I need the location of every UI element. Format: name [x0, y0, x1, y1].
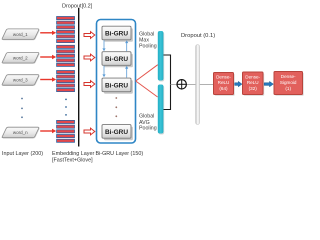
concat sum node [177, 80, 186, 89]
dense box 3 [274, 72, 304, 96]
red open arrow row3 [84, 81, 95, 88]
label Global Max Pooling [139, 32, 157, 50]
svg-text:(32): (32) [249, 86, 258, 91]
dense box 1 [214, 73, 235, 96]
svg-text:word_3: word_3 [13, 78, 28, 83]
red line to max pooling bar [136, 65, 158, 81]
word box word_2 [2, 53, 39, 64]
Bi-GRU box 3 [102, 78, 133, 94]
red open arrow row4 [84, 128, 95, 135]
svg-text:Pooling: Pooling [139, 44, 157, 50]
svg-text:Dense-: Dense- [281, 74, 296, 79]
svg-text:Global: Global [139, 114, 154, 120]
max pooling cyan bar [158, 31, 164, 82]
svg-text:Dropout[0.2]: Dropout[0.2] [62, 4, 93, 10]
svg-text:Pooling: Pooling [139, 126, 157, 132]
svg-text:Bi-GRU: Bi-GRU [105, 56, 128, 63]
svg-text:Dense-: Dense- [245, 74, 260, 79]
svg-text:Dropout (0.1): Dropout (0.1) [181, 33, 215, 39]
svg-text:Dense-: Dense- [216, 74, 231, 79]
blue arrows between box2 and box3 [102, 66, 128, 78]
vertical dots Bi-GRU column [115, 97, 117, 117]
red open arrow row2 [84, 54, 95, 61]
dense box 2 [243, 72, 265, 96]
svg-text:Bi-GRU: Bi-GRU [105, 31, 128, 38]
blue block arrow 1 [235, 81, 242, 86]
blue arrows between box1 and box2 [102, 40, 128, 51]
svg-text:Embedding Layer: Embedding Layer [52, 151, 94, 157]
Bi-GRU box n [102, 125, 133, 141]
svg-text:Bi-GRU Layer (150): Bi-GRU Layer (150) [96, 151, 144, 157]
embedding stack n [57, 120, 75, 142]
Bi-GRU box 2 [102, 52, 133, 68]
red arrow word_3 to embedding [40, 77, 56, 81]
Bi-GRU container [97, 20, 136, 144]
blue block arrow 2 [264, 81, 273, 86]
red arrow word_2 to embedding [40, 55, 56, 59]
embedding stack 2 [57, 45, 75, 66]
red open arrow row1 [84, 32, 95, 39]
red arrow word_1 to embedding [40, 31, 56, 35]
svg-text:(1): (1) [285, 86, 291, 91]
word box word_n [2, 127, 39, 138]
svg-text:Bi-GRU: Bi-GRU [105, 129, 128, 136]
label Global AVG Pooling [139, 114, 157, 132]
svg-text:(64): (64) [219, 86, 228, 91]
svg-text:Sigmoid: Sigmoid [280, 80, 297, 85]
svg-text:Bi-GRU: Bi-GRU [105, 83, 128, 90]
vertical dots embedding column [65, 99, 67, 116]
svg-text:word_1: word_1 [13, 32, 28, 37]
Bi-GRU box 1 [102, 26, 133, 42]
svg-text:word_2: word_2 [13, 56, 28, 61]
red line to avg pooling bar [136, 81, 158, 97]
svg-text:Input Layer (200): Input Layer (200) [2, 151, 43, 157]
dropout 0.1 bar [196, 45, 200, 125]
dropout 0.2 vertical line [78, 8, 80, 147]
svg-text:ReLU: ReLU [218, 80, 230, 85]
bracket joining pooling outputs [164, 55, 171, 110]
svg-text:word_n: word_n [13, 130, 28, 135]
svg-text:ReLU: ReLU [247, 80, 259, 85]
wire bracket to dense layer [171, 83, 214, 85]
embedding stack 3 [57, 71, 75, 92]
embedding stack 1 [57, 17, 75, 43]
avg pooling cyan bar [158, 85, 164, 135]
red arrow word_n to embedding [40, 129, 56, 133]
vertical dots word column [21, 98, 23, 119]
word box word_3 [2, 75, 39, 86]
word box word_1 [2, 29, 39, 40]
svg-text:[FastText+Glove]: [FastText+Glove] [52, 158, 93, 164]
